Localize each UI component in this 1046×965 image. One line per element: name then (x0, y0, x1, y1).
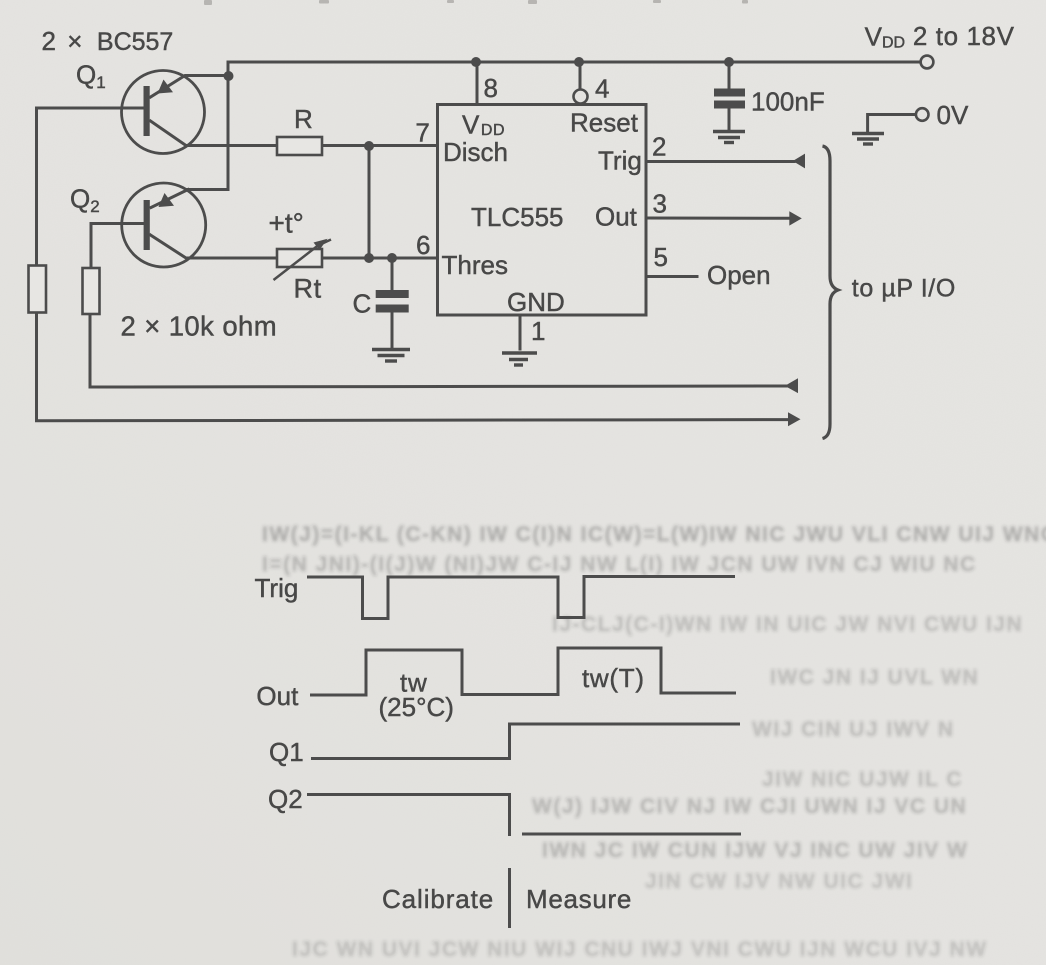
transistor Q1 (122, 71, 205, 154)
terminal VDD (921, 56, 934, 69)
capacitor C (376, 290, 409, 313)
ground below pin 1 (502, 353, 537, 365)
wire Q1 emitter (151, 76, 229, 98)
waveform Q1 (311, 724, 740, 759)
wire emitter bus vertical (188, 62, 228, 190)
ground below 0V (852, 134, 884, 145)
wire second column lower / long line 1 (90, 314, 786, 387)
resistor left 10k (R1v) (29, 266, 47, 313)
wire Q2 base (91, 224, 144, 269)
arrow long line 1 (left-pointing) (785, 378, 798, 393)
wire cap C bottom (391, 313, 394, 349)
wire VDD rail (228, 61, 920, 64)
wire Q1 collector (151, 121, 278, 146)
resistor second 10k (R2v) (83, 268, 100, 314)
arrow out output (right-pointing) (789, 211, 802, 225)
arrow trig input (left-pointing) (793, 154, 805, 169)
waveform Q2 high (307, 795, 510, 837)
wire Q2 collector (151, 235, 278, 258)
wire pin 1 GND (519, 315, 522, 349)
terminal 0V (916, 108, 929, 121)
arrow long line 2 (right-pointing) (788, 412, 801, 426)
wire pin 8 (476, 62, 479, 105)
node dot cap C (387, 253, 397, 263)
wire R to IC pin 7 (322, 144, 438, 147)
capacitor 100nF (714, 89, 745, 109)
node dot disch (364, 141, 374, 151)
waveform Q2 low (522, 833, 741, 836)
node dot pin8 rail (471, 57, 481, 67)
wire 100nF top (728, 62, 731, 89)
node dot 100nF rail (724, 57, 734, 67)
wire Rt to IC pin 6 (322, 257, 438, 260)
pin 4 reset open circle (574, 90, 588, 104)
brace to uP I/O (823, 146, 839, 439)
timing diagram (307, 577, 741, 929)
wire 100nF bottom (728, 109, 731, 131)
IC U1 TLC555 box (438, 105, 647, 316)
ground below 100nF (713, 132, 745, 143)
waveform Out (310, 648, 736, 695)
page-top print fragments (204, 0, 748, 5)
thermistor Rt (274, 239, 332, 280)
wire pin 5 open (646, 275, 697, 278)
wire pin 4 reset stub (579, 62, 582, 89)
resistor R (277, 137, 322, 155)
wire left column lower / long line 2 (37, 313, 790, 421)
wire Q1 base (37, 107, 144, 110)
ghost bleed-through text (262, 523, 1046, 961)
node dot Q1 emitter (224, 71, 234, 81)
wire 0V terminal (868, 115, 916, 132)
wire left column to resistor (35, 108, 38, 266)
wire node link vertical (368, 146, 371, 259)
node dot reset rail (574, 57, 584, 67)
transistor Q2 (122, 183, 206, 267)
wire pin 2 Trig out (646, 160, 794, 163)
wire cap C top (391, 258, 394, 290)
divider calibrate/measure (508, 868, 511, 928)
wire Q2 emitter (151, 190, 188, 208)
waveform Trig (307, 577, 735, 619)
node dot thres (364, 253, 374, 263)
ground below C (372, 350, 410, 362)
wire pin 3 Out (646, 217, 790, 220)
